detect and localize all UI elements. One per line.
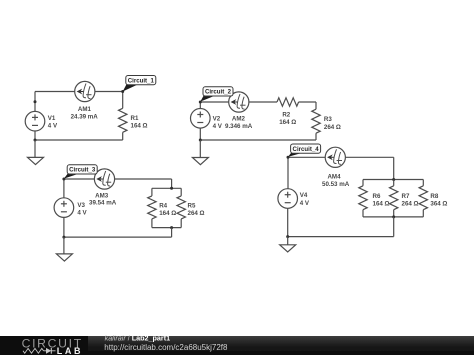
wire C3 bottom bar xyxy=(152,227,181,229)
junction C1 left xyxy=(34,100,37,103)
wire AM3 to parallel xyxy=(114,178,171,180)
wire down to top bar C4 xyxy=(393,157,395,179)
logo diode xyxy=(44,350,47,352)
wire down from bottom bar C4 xyxy=(393,217,395,237)
wire C2 bottom xyxy=(200,139,316,141)
wire C1 left down to V1 xyxy=(34,92,36,112)
svg-text:164 Ω: 164 Ω xyxy=(131,123,148,130)
svg-text:4 V: 4 V xyxy=(48,123,58,130)
junction C4 top bar xyxy=(392,178,395,181)
resistor R2 xyxy=(277,98,299,106)
resistor R6 xyxy=(362,180,364,186)
node C2 top-left xyxy=(199,101,202,104)
wire C1 top-left to AM1 xyxy=(35,91,75,93)
node C4 top-left xyxy=(287,156,290,159)
svg-text:164 Ω: 164 Ω xyxy=(159,210,176,217)
ammeter AM2 xyxy=(229,92,249,112)
svg-text:Circuit_2: Circuit_2 xyxy=(205,89,232,96)
logo plate xyxy=(0,336,88,355)
wire AM2 to R2 xyxy=(249,101,277,103)
wire V3 bottom xyxy=(63,217,65,237)
svg-text:4 V: 4 V xyxy=(77,210,87,217)
svg-text:164 Ω: 164 Ω xyxy=(279,119,296,126)
resistor R4 xyxy=(151,188,153,196)
svg-text:39.54 mA: 39.54 mA xyxy=(89,200,117,207)
junction C1 bottom-left xyxy=(34,139,37,142)
footer bar xyxy=(0,336,474,355)
wire V2 bottom xyxy=(199,128,201,140)
wire V4 bottom xyxy=(287,208,289,236)
net label Circuit_1 xyxy=(123,76,156,92)
svg-text:Circuit_4: Circuit_4 xyxy=(293,146,320,153)
svg-text:http://circuitlab.com/c2a68u5k: http://circuitlab.com/c2a68u5kj72f8 xyxy=(104,343,228,352)
svg-text:Circuit_1: Circuit_1 xyxy=(128,77,155,84)
svg-text:4 V: 4 V xyxy=(213,123,223,130)
wire R2 to corner xyxy=(299,101,316,103)
svg-text:LAB: LAB xyxy=(57,346,83,355)
voltage source V3 xyxy=(54,198,74,218)
ammeter AM3 xyxy=(94,169,114,189)
svg-text:R1: R1 xyxy=(131,115,139,122)
svg-text:AM3: AM3 xyxy=(95,192,109,199)
ground C4 xyxy=(280,245,296,252)
svg-text:AM2: AM2 xyxy=(232,116,246,123)
wire C3 left to V3 xyxy=(63,179,65,198)
node C1 top-right xyxy=(121,90,124,93)
junction C3 bottom-left xyxy=(62,236,65,239)
wire AM1 to R1 top xyxy=(95,91,123,93)
svg-text:50.53 mA: 50.53 mA xyxy=(322,181,350,188)
wire C1 bottom xyxy=(35,139,123,141)
net label Circuit_3 xyxy=(64,165,97,179)
wire C3 top bar xyxy=(152,187,181,189)
svg-text:R6: R6 xyxy=(373,193,381,200)
node C3 top-left xyxy=(62,178,65,181)
resistor R5 xyxy=(180,188,182,196)
wire to ground C1 xyxy=(34,140,36,157)
wire C3 top-left to AM3 xyxy=(64,178,95,180)
svg-text:V3: V3 xyxy=(77,202,85,209)
svg-text:R8: R8 xyxy=(430,193,438,200)
ground C2 xyxy=(192,158,208,165)
svg-text:24.39 mA: 24.39 mA xyxy=(71,114,99,121)
ammeter AM1 xyxy=(75,81,95,101)
net label Circuit_4 xyxy=(288,144,321,157)
wire C2 left to V2 xyxy=(199,102,201,109)
junction C3 top bar xyxy=(170,187,173,190)
svg-text:264 Ω: 264 Ω xyxy=(324,124,341,131)
ammeter AM4 xyxy=(325,147,345,167)
svg-text:9.346 mA: 9.346 mA xyxy=(225,123,253,130)
voltage source V2 xyxy=(191,109,211,129)
resistor R7 xyxy=(393,180,395,186)
resistor R3 xyxy=(315,102,317,109)
svg-text:V2: V2 xyxy=(213,115,221,122)
svg-text:V1: V1 xyxy=(48,115,56,122)
svg-text:R5: R5 xyxy=(188,202,196,209)
wire C3 bottom xyxy=(64,236,172,238)
wire C2 top-left to AM2 xyxy=(200,101,229,103)
svg-text:4 V: 4 V xyxy=(300,200,310,207)
wire C4 bottom bar xyxy=(363,216,423,218)
svg-text:364 Ω: 364 Ω xyxy=(430,201,447,208)
svg-text:AM4: AM4 xyxy=(327,173,341,180)
svg-text:R3: R3 xyxy=(324,116,332,123)
wire C4 top bar xyxy=(363,179,423,181)
resistor R1 xyxy=(122,92,124,109)
svg-text:kalirair / Lab2_part1: kalirair / Lab2_part1 xyxy=(105,334,171,343)
wire C4 bottom xyxy=(288,236,394,238)
junction C3 bottom bar xyxy=(170,226,173,229)
resistor R8 xyxy=(422,180,424,186)
net label Circuit_2 xyxy=(200,87,233,102)
wire to ground C3 xyxy=(63,237,65,254)
wire down from bottom bar C3 xyxy=(171,228,173,238)
wire down to top bar C3 xyxy=(171,179,173,188)
svg-text:R4: R4 xyxy=(159,202,167,209)
junction C2 bottom-left xyxy=(199,139,202,142)
voltage source V1 xyxy=(25,111,45,131)
wire AM4 to corner xyxy=(345,156,394,158)
svg-text:AM1: AM1 xyxy=(78,106,92,113)
svg-text:Circuit_3: Circuit_3 xyxy=(69,167,96,174)
wire C4 left to V4 xyxy=(287,157,289,189)
svg-text:164 Ω: 164 Ω xyxy=(373,201,390,208)
wire to ground C2 xyxy=(199,140,201,158)
junction C4 bottom bar xyxy=(392,215,395,218)
wire C4 top-left to AM4 xyxy=(288,156,326,158)
junction C4 bottom-left xyxy=(286,235,289,238)
svg-text:V4: V4 xyxy=(300,192,308,199)
svg-text:R2: R2 xyxy=(282,111,290,118)
wire to ground C4 xyxy=(287,237,289,245)
ground C1 xyxy=(28,157,44,164)
voltage source V4 xyxy=(278,189,298,209)
ground C3 xyxy=(56,254,72,261)
wire V1 bottom xyxy=(34,131,36,140)
svg-text:264 Ω: 264 Ω xyxy=(402,201,419,208)
logo resistor zigzag xyxy=(23,348,44,353)
svg-text:R7: R7 xyxy=(402,193,410,200)
svg-text:264 Ω: 264 Ω xyxy=(188,210,205,217)
